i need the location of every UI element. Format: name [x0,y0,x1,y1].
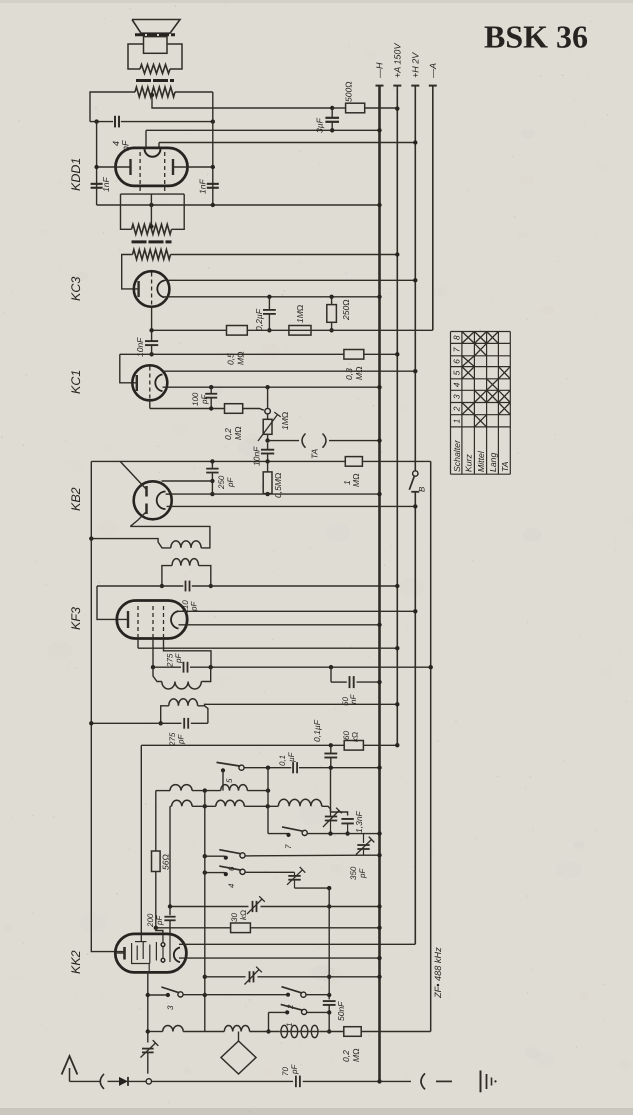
coil IF1 secondary [162,682,202,690]
switch B [413,471,418,476]
svg-text:KK2: KK2 [69,950,83,974]
wire 30k to -H [250,927,379,929]
wire osc coil line left [148,1031,163,1033]
svg-text:7: 7 [452,347,462,352]
wire switch7 line [268,833,288,835]
ground symbol [480,1071,482,1093]
svg-text:KC1: KC1 [69,370,83,394]
coil row1 a [170,785,192,791]
wire KF3 anode vertical [97,586,128,619]
svg-text:4: 4 [111,141,121,146]
power rail -H [378,86,381,1082]
wire 500 Ohm to +A [365,107,398,109]
coil osc a [163,1026,184,1032]
wire 1M to -A rail [362,460,430,462]
power rail +H upper [414,86,416,471]
svg-text:6: 6 [452,359,462,364]
tube KC3 anode bar [137,281,139,297]
svg-text:KF3: KF3 [69,607,83,630]
resistor 0.3M [344,350,364,360]
wire 30k line [156,927,231,929]
svg-text:Kurz: Kurz [464,453,474,472]
wire row2 right bend [322,806,331,812]
wire ground line left [152,1080,294,1082]
antenna symbol [62,1056,78,1075]
svg-text:5: 5 [225,778,234,783]
svg-text:µF: µF [287,751,296,762]
wire KC1 filament to +H [163,370,416,372]
svg-text:1MΩ: 1MΩ [295,304,305,323]
svg-text:ZF• 488 kHz: ZF• 488 kHz [433,947,443,999]
transformer core bar [136,79,174,82]
svg-text:—A: —A [428,63,438,79]
svg-text:0,2: 0,2 [223,428,233,440]
wire 1p3nF top stub [331,812,348,816]
wire row1 right [247,790,268,792]
wire KC1 filament to -H [163,386,380,388]
switch table grid [450,332,452,475]
ferrite diamond [221,1041,256,1074]
svg-text:nF: nF [349,694,358,704]
svg-text:1,3nF: 1,3nF [354,810,364,833]
connector circle [146,1079,151,1084]
wire 0.2M to pot wiper [243,409,264,411]
antenna jack arc [100,1074,104,1089]
svg-text:200: 200 [146,913,155,928]
tube KF3 grid g1 [152,606,154,638]
tube KF3 anode bar [127,611,129,628]
tube KF3 grid g3 [137,606,139,638]
wire switch6 to -H [245,854,363,857]
svg-text:pF: pF [190,601,199,612]
resistor 1M diode load [345,457,362,467]
wire switch5 line [244,767,291,769]
svg-text:50nF: 50nF [336,1001,346,1021]
coil detector coupling [171,541,201,548]
capacitor 3uF [331,108,333,117]
wire primary right to right vertical [175,91,213,93]
wire 0.3M to +A [364,353,398,355]
svg-text:BSK 36: BSK 36 [484,19,588,55]
wire x330 vertical [330,768,332,812]
svg-text:1nF: 1nF [101,177,111,192]
wire primary right to +A [171,254,398,256]
wire IF1 pri right to +A [198,704,398,706]
wire ground line right [303,1080,380,1082]
svg-text:MΩ: MΩ [351,1048,361,1062]
potentiometer 1M arrow [258,415,278,442]
tube KDD1 right anode [172,159,174,175]
capacitor 1nF right [207,183,219,185]
wire x170 vertical [169,806,171,906]
capacitor 4nF [114,116,116,128]
wire row2 line left corner [170,805,172,807]
resistor 30k [231,923,251,933]
svg-text:MΩ: MΩ [236,351,246,365]
wire KF3 filament to +H [179,610,416,612]
wire 4nF line [90,121,113,123]
wire IF1 tank line to -A [153,666,181,668]
capacitor 0.2uF [268,297,270,310]
switch 2 [286,993,290,997]
wire row2 mid2 [244,805,278,807]
resistor 250 Ohm [331,297,333,305]
tube KB2 anode upper [145,486,148,497]
wire center tap to 500 Ohm line [152,95,332,108]
resistor 0.5M diode [267,461,269,472]
wire IF2 sec left [162,566,172,586]
capacitor 1nF left [91,183,103,185]
tube KB2 anode lower [145,504,148,515]
svg-text:0,1: 0,1 [278,755,287,766]
coil row2 a [172,800,193,806]
svg-text:3: 3 [452,394,462,399]
wire antenna line [70,1080,100,1082]
svg-text:4: 4 [227,883,236,888]
trimmer A bars [325,816,337,818]
svg-text:+H 2V: +H 2V [410,52,420,78]
tube KK2 cathode arc [174,948,180,963]
tube KDD1 envelope [116,148,188,186]
connector TA arcs [302,434,306,448]
trimmer g2 series [249,971,251,982]
svg-text:56Ω: 56Ω [161,854,171,870]
wire det coil left lead [91,539,171,548]
wire switch3 line [148,994,167,996]
wire 56 chain into tube [156,928,163,935]
wire KB2 top line [91,460,345,462]
wire 110pF tank line [97,585,183,587]
wire KB2 filament to +H [167,505,416,507]
svg-text:TA: TA [500,461,510,472]
svg-text:1: 1 [452,419,462,424]
capacitor 0.1uF shunt [330,745,332,753]
tube KK2 anode bar [123,947,126,960]
wire switch3 to switch2 [183,994,287,996]
coil IF1 primary [169,699,198,706]
wire osc vertical x329 [328,888,330,999]
capacitor 50nF IF [330,667,332,682]
wire secondary center tap [150,194,152,226]
wire 60k to +A end [363,744,397,746]
wire tuner top line [141,744,344,746]
tube KC1 anode bar [136,375,138,391]
svg-text:500Ω: 500Ω [344,81,354,102]
svg-text:kΩ: kΩ [351,732,360,742]
svg-text:100: 100 [191,392,200,406]
wire 0.2M to -A cont [361,1031,431,1033]
svg-text:250: 250 [217,475,226,490]
wire KC3 grid line to -A [152,329,433,331]
switch 7 [286,833,290,837]
coil row2 b [216,800,245,806]
wire switch2 to osc [306,994,329,996]
wire tank2 right corner [205,706,208,724]
wire diode cathode line to -H [166,493,380,495]
svg-text:30: 30 [230,913,239,922]
wire switch7 to -H [307,833,379,835]
potentiometer 1M wiper circle [265,408,271,414]
wire KK2 filament to -H [179,957,380,959]
svg-text:pF: pF [177,734,186,745]
tube KF3 grid g2 [163,606,165,638]
trimmer MW padder [294,872,296,875]
trimmer A arrow [323,811,339,828]
wire switch5 contact down [222,770,224,790]
ground jack arc [421,1073,425,1089]
tube KC1 envelope [132,365,167,400]
wire IF1 pri left [161,706,169,724]
tube KC3 filament arc [157,281,164,298]
tube KB2 envelope [134,481,172,519]
resistor 0.2M [225,404,243,414]
speaker cone [132,20,180,34]
trimmer osc series [252,901,254,912]
speaker field coil box with resistor [128,44,144,69]
svg-text:10nF: 10nF [252,446,262,466]
tube KK2 anode lead [115,952,124,954]
interstage primary winding (KC3 anode) [133,250,171,260]
tube KK2 grid comb [132,943,150,972]
svg-text:TA: TA [310,448,320,459]
wire TA line left [268,440,299,442]
svg-text:0,3: 0,3 [344,368,354,380]
tube KDD1 filament bump [145,149,161,157]
svg-text:—H: —H [375,62,385,79]
wire primary left to left vertical [90,92,135,122]
coil row1 b [221,785,248,791]
interstage transformer core [132,240,172,243]
tube KK2 envelope [115,934,186,973]
output transformer primary winding [135,87,175,97]
svg-text:Mittel: Mittel [476,450,486,472]
trimmer antenna [142,1048,154,1050]
wire KDD1 right vertical [212,92,214,205]
svg-text:70: 70 [281,1067,290,1076]
wire to 500 Ohm [332,107,345,109]
svg-text:pF: pF [155,915,164,926]
svg-text:MΩ: MΩ [354,366,364,380]
wire AVC long vertical [91,461,124,951]
power rail +A [396,86,398,746]
switch 1 [285,1010,289,1014]
switch table X marks [462,332,475,344]
svg-text:1MΩ: 1MΩ [280,411,290,430]
wire x268 vertical [267,768,269,834]
svg-text:4: 4 [452,382,462,387]
capacitor 0.1uF series [292,762,294,773]
wire KK2 grid down [147,971,149,1043]
wire KC3 filament to +H [165,279,416,281]
wire KK2 filament to +H [179,943,415,945]
resistor 0.2M osc [344,1027,361,1037]
antenna plug [108,1080,120,1082]
wire switch1 corner [269,1011,287,1013]
wire KF3 filament to -H [179,624,380,626]
trimmer 350pF [363,834,365,843]
wire osc top line right [261,906,380,908]
wire switch4 line [205,872,225,874]
svg-text:pF: pF [200,394,209,405]
tube KF3 envelope [117,601,187,639]
wire switch4 to trimmer [245,871,294,873]
svg-text:pF: pF [290,1064,299,1075]
capacitor 200pF [169,907,171,916]
interstage transformer secondary box [121,193,185,195]
wire grid return line [97,204,380,206]
speaker magnet gap bar [135,33,175,36]
svg-text:5: 5 [452,370,462,375]
wire TA line right to -H [329,440,380,442]
wire diamond stub [238,1032,240,1042]
wire tuner outer vertical [140,745,142,935]
wire padder to osc vertical [295,887,330,889]
wire x204 vertical [204,791,206,1032]
wire switch1 to osc [307,1011,330,1013]
wire row1 mid [192,790,221,792]
resistor 1M grid [289,326,311,336]
svg-text:B: B [418,486,427,492]
wire pot top [267,387,269,408]
svg-text:8: 8 [452,335,462,340]
svg-text:kΩ: kΩ [239,910,248,920]
power rail -A lower [430,461,432,1031]
node primary center tap [150,93,154,97]
wire IF1 sec leads [153,667,162,681]
tube KC3 envelope [134,271,170,307]
svg-text:KDD1: KDD1 [69,158,83,191]
wire osc coil mid1 [183,1031,224,1033]
coil IF2 secondary [172,559,199,566]
capacitor 10nF coupling [151,330,153,340]
switch 6 [224,856,228,860]
node 3uF top [330,106,334,110]
wire g2 line to -H [205,976,246,978]
svg-text:3: 3 [166,1005,175,1010]
wire IF1 tank2 line [91,722,181,724]
svg-text:KC3: KC3 [69,277,83,301]
svg-text:7: 7 [284,844,293,849]
wire KB2 detector loop [130,526,210,548]
wire KC1 anode line [120,353,344,355]
tube KB2 cathode arc [157,492,166,510]
capacitor 70pF [295,1076,297,1088]
switch 5 [221,768,225,772]
wire KDD1 left vertical [96,122,98,205]
resistor 60k [344,741,363,751]
svg-text:350: 350 [349,866,358,880]
capacitor 275pF second [183,718,185,729]
wire switch6 line [205,855,225,857]
wire KB2 cathode to -H line [166,493,171,495]
svg-text:0,2µF: 0,2µF [254,308,264,331]
resistor 500 Ohm [346,103,365,113]
capacitor 100pF [210,387,212,393]
svg-text:Lang: Lang [488,453,498,472]
switch 3 [166,993,170,997]
wire filament line to +H [158,143,160,150]
svg-text:pF: pF [174,653,183,664]
svg-text:pF: pF [226,477,235,488]
wire 250pF tap to diode anode [162,480,213,482]
wire KC1 grid line [150,408,225,410]
wire KC1 anode vertical [120,354,137,383]
wire IF2 sec right [199,566,211,586]
capacitor 250pF [211,461,213,468]
capacitor 110pF [185,581,187,592]
svg-text:MΩ: MΩ [233,426,243,440]
tube KDD1 grid dashes [139,152,141,194]
wire KC3 filament to -H [165,296,380,298]
tube KC1 filament arc [155,374,162,391]
wire primary left to KC3 anode [122,255,139,289]
tube KF3 cathode arc [171,611,178,628]
interstage secondary winding [132,224,172,234]
wire g2 line right [258,976,380,978]
svg-text:+A 150V: +A 150V [392,43,402,78]
speaker voice coil [144,37,168,54]
wire cathode line to -H [145,130,147,149]
svg-text:MΩ: MΩ [351,473,361,487]
tube KC3 grid [151,273,153,307]
svg-text:0,1µF: 0,1µF [312,719,322,742]
wire row2 mid1 [192,805,216,807]
wire osc top line [170,906,249,908]
coil row2 c osc [278,799,321,806]
tube KC1 grid [149,367,151,401]
capacitor 275pF first [183,662,185,673]
svg-text:2: 2 [452,406,462,412]
capacitor 50nF osc [323,1000,336,1002]
svg-text:pF: pF [358,868,367,879]
resistor 0.5M [227,326,248,336]
svg-text:0,2: 0,2 [341,1050,351,1062]
wire KF3 screen to +A [138,647,397,649]
svg-text:Schalter: Schalter [452,439,462,472]
switch 4 [224,872,228,876]
wire osc coil mid2 [250,1031,280,1033]
resistor 56 Ohm [155,791,157,851]
coil osc b [224,1025,249,1031]
tube KDD1 left anode [129,159,131,175]
wire osc coil right [320,1031,344,1033]
capacitor 1.3nF [341,818,353,820]
capacitor 10nF detector [261,449,274,451]
wire row1 line [156,790,170,792]
svg-text:KB2: KB2 [69,487,83,511]
svg-text:250Ω: 250Ω [341,299,351,321]
potentiometer 1M body [267,414,269,419]
coil osc c loops [279,1031,320,1033]
power rail -A [432,86,434,331]
svg-text:1nF: 1nF [198,179,208,194]
node TA line [265,438,269,442]
